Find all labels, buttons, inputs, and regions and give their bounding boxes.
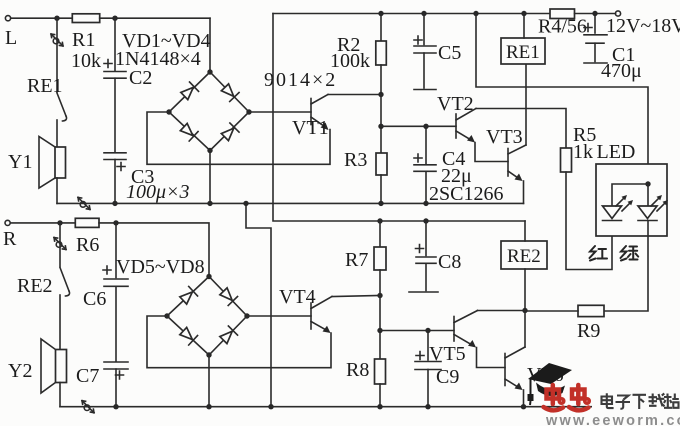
node bbox=[423, 218, 428, 223]
svg-text:RE1: RE1 bbox=[506, 42, 540, 63]
node bridge1 right bbox=[246, 109, 251, 114]
node bbox=[421, 11, 426, 16]
node rail1 dots bbox=[112, 201, 117, 206]
node bbox=[378, 11, 383, 16]
wire VT3 emitter to ground rail bbox=[523, 181, 525, 203]
wire bbox=[379, 296, 381, 360]
resistor R3 bbox=[344, 149, 387, 203]
svg-text:VT1: VT1 bbox=[292, 117, 329, 139]
relay coil RE1 bbox=[501, 14, 545, 65]
svg-text:12V~18V: 12V~18V bbox=[606, 15, 680, 37]
svg-text:1k: 1k bbox=[573, 141, 593, 163]
terminal R bbox=[3, 220, 17, 250]
LED box bbox=[596, 164, 667, 236]
resistor R7 bbox=[345, 221, 386, 296]
diode VD3 bbox=[179, 122, 198, 141]
wire bbox=[380, 95, 382, 154]
diode VD7 bbox=[179, 326, 198, 345]
node bridge1 top bbox=[207, 69, 212, 74]
wire bbox=[100, 17, 210, 19]
svg-text:C2: C2 bbox=[129, 67, 152, 89]
LED red bbox=[603, 195, 634, 221]
wire bridge1 left loop bbox=[147, 112, 330, 164]
wire R9 to node bbox=[525, 310, 578, 312]
LED green bbox=[638, 195, 668, 221]
svg-text:R1: R1 bbox=[72, 29, 95, 51]
resistor R4 bbox=[538, 9, 587, 38]
diode bridge VD5-VD8 frame bbox=[167, 277, 247, 356]
node bbox=[522, 308, 527, 313]
terminal 12V~18V bbox=[606, 11, 680, 37]
terminal L bbox=[5, 16, 17, 49]
wire bbox=[114, 160, 116, 204]
relay RE1 contact blade bbox=[27, 75, 67, 121]
svg-text:C8: C8 bbox=[438, 251, 461, 273]
svg-text:Y1: Y1 bbox=[8, 151, 32, 173]
node bbox=[473, 11, 478, 16]
svg-text:R9: R9 bbox=[577, 320, 600, 342]
capacitor C7 bbox=[76, 362, 128, 387]
capacitor C5 bbox=[414, 14, 461, 90]
wire bbox=[56, 120, 58, 147]
relay RE2 contact blade bbox=[17, 268, 70, 298]
node bbox=[377, 328, 382, 333]
wire bbox=[209, 18, 211, 72]
node bbox=[243, 201, 248, 206]
wire VT6 emitter to ground bbox=[523, 390, 525, 407]
wire VT3 collector to RE1 bbox=[525, 64, 527, 145]
node bridge2 top bbox=[206, 274, 211, 279]
svg-text:R7: R7 bbox=[345, 249, 368, 271]
wire bbox=[575, 13, 616, 15]
svg-text:L: L bbox=[5, 27, 17, 49]
transistor VT2 bbox=[437, 93, 476, 143]
wire ch1 ground rail bbox=[57, 202, 524, 204]
watermark whiteout bbox=[592, 384, 680, 426]
resistor R2 bbox=[330, 14, 386, 95]
speaker Y1 bbox=[8, 137, 66, 189]
svg-text:VT5: VT5 bbox=[429, 343, 466, 365]
transistor VT5 bbox=[454, 311, 478, 348]
node bbox=[112, 16, 117, 21]
wire bridge2 bottom lead bbox=[208, 355, 210, 407]
relay contact mark bbox=[82, 401, 94, 413]
svg-text:10k: 10k bbox=[71, 50, 101, 72]
wire base line VT5 bbox=[380, 330, 454, 332]
svg-text:2SC1266: 2SC1266 bbox=[429, 183, 503, 205]
node bbox=[592, 11, 597, 16]
capacitor C6 bbox=[83, 223, 128, 310]
capacitor C1 bbox=[584, 14, 642, 83]
wire base line VT2 bbox=[381, 125, 456, 127]
svg-text:VT4: VT4 bbox=[279, 286, 316, 308]
watermark worm glyph 2 bbox=[569, 385, 589, 410]
node bridge1 bottom bbox=[207, 148, 212, 153]
svg-text:100μ×3: 100μ×3 bbox=[126, 181, 190, 203]
svg-text:VT2: VT2 bbox=[437, 93, 474, 115]
svg-text:C9: C9 bbox=[436, 366, 459, 388]
svg-text:RE1: RE1 bbox=[27, 75, 63, 97]
node bbox=[425, 328, 430, 333]
relay contact mark bbox=[51, 34, 63, 46]
transistor VT1 bbox=[292, 95, 329, 140]
wire VT2 collector to R5 bbox=[476, 109, 566, 149]
resistor R6 bbox=[75, 218, 99, 256]
wire bridge2 left loop bbox=[147, 316, 331, 368]
capacitor C4 bbox=[414, 126, 503, 205]
svg-text:1N4148×4: 1N4148×4 bbox=[115, 48, 201, 70]
speaker Y2 bbox=[8, 339, 67, 393]
wire VT1 collector bbox=[328, 94, 381, 96]
resistor R5 bbox=[561, 124, 597, 172]
resistor R8 bbox=[346, 359, 386, 407]
transistor VT6 bbox=[505, 347, 564, 390]
diode VD2 bbox=[220, 83, 239, 102]
transistor VT4 bbox=[279, 286, 332, 333]
wire VT4 collector bbox=[332, 296, 380, 297]
wire bbox=[59, 223, 61, 267]
relay contact mark bbox=[54, 238, 66, 250]
svg-text:RE2: RE2 bbox=[507, 246, 541, 267]
watermark worm glyph 1 bbox=[544, 385, 564, 410]
node bbox=[113, 220, 118, 225]
node bbox=[423, 124, 428, 129]
svg-text:9014×2: 9014×2 bbox=[264, 69, 337, 91]
wire LED anode feeds bbox=[612, 184, 648, 206]
watermark graduation cap bbox=[528, 363, 573, 405]
svg-text:C7: C7 bbox=[76, 365, 99, 387]
transistor VT3 bbox=[486, 126, 526, 181]
wire VT2 emitter to VT3 base bbox=[475, 143, 508, 162]
node bridge1 left bbox=[166, 109, 171, 114]
wire bbox=[56, 18, 58, 92]
wire RE2 to VT6 collector bbox=[524, 311, 526, 348]
svg-text:R3: R3 bbox=[344, 149, 367, 171]
wire supply drop left bbox=[273, 14, 525, 222]
svg-text:LED: LED bbox=[597, 141, 636, 163]
diode VD1 bbox=[180, 82, 199, 101]
label green bbox=[621, 246, 639, 261]
node bbox=[378, 124, 383, 129]
svg-text:C5: C5 bbox=[438, 42, 461, 64]
svg-text:VD5~VD8: VD5~VD8 bbox=[116, 256, 205, 278]
wire bridge1 bottom lead bbox=[209, 151, 211, 204]
node bridge2 right bbox=[244, 313, 249, 318]
wire bbox=[59, 295, 61, 350]
node bridge2 bottom bbox=[206, 352, 211, 357]
node bbox=[54, 16, 59, 21]
node LED feed bbox=[645, 181, 650, 186]
svg-text:Y2: Y2 bbox=[8, 360, 32, 382]
wire VT5 collector bbox=[478, 310, 526, 312]
svg-text:R4/56: R4/56 bbox=[538, 16, 587, 38]
svg-text:R6: R6 bbox=[76, 234, 99, 256]
wire bbox=[115, 369, 117, 407]
svg-text:470μ: 470μ bbox=[601, 60, 642, 82]
wire green LED cathode to R9 bbox=[604, 221, 648, 312]
node bridge2 left bbox=[164, 313, 169, 318]
diode VD5 bbox=[179, 286, 198, 305]
node bbox=[521, 11, 526, 16]
wire bridge2 right to VT4 base bbox=[247, 315, 311, 317]
wire bbox=[10, 222, 75, 224]
wire bbox=[11, 17, 73, 19]
resistor R9 bbox=[577, 305, 604, 342]
node bbox=[377, 218, 382, 223]
wire bbox=[114, 78, 116, 152]
node rail2 dots bbox=[113, 404, 118, 409]
wire ground link bbox=[246, 203, 271, 406]
diode VD8 bbox=[219, 326, 238, 345]
wire bbox=[59, 383, 61, 407]
capacitor C8 bbox=[409, 221, 461, 292]
wire bbox=[56, 178, 58, 203]
diode bridge VD1-VD4 frame bbox=[169, 72, 249, 151]
wire +V to LED feed bbox=[476, 14, 648, 185]
capacitor C9 bbox=[415, 331, 466, 407]
relay contact mark bbox=[78, 197, 90, 209]
node bbox=[378, 92, 383, 97]
wire bbox=[115, 286, 117, 361]
wire R5 bottom to red LED cathode bbox=[566, 172, 612, 270]
svg-text:R8: R8 bbox=[346, 359, 369, 381]
svg-text:www.eeworm.com: www.eeworm.com bbox=[545, 413, 680, 426]
wire top rail bbox=[273, 13, 550, 15]
label red bbox=[590, 246, 608, 261]
diode VD6 bbox=[219, 287, 238, 306]
svg-text:C6: C6 bbox=[83, 288, 106, 310]
capacitor C2 bbox=[104, 18, 152, 89]
node bbox=[57, 220, 62, 225]
resistor R1 bbox=[71, 14, 101, 72]
svg-text:VT3: VT3 bbox=[486, 126, 523, 148]
wire ch2 ground rail bbox=[60, 406, 592, 408]
node bbox=[377, 293, 382, 298]
wire VT5 emitter to VT6 base bbox=[477, 348, 506, 368]
watermark site name glyphs bbox=[602, 393, 679, 409]
wire bridge1 right to VT1 base bbox=[249, 111, 311, 113]
capacitor C3 bbox=[104, 153, 190, 203]
svg-text:100k: 100k bbox=[330, 50, 370, 72]
relay coil RE2 bbox=[501, 221, 547, 311]
wire bbox=[99, 223, 209, 277]
diode VD4 bbox=[220, 123, 239, 142]
svg-text:R: R bbox=[3, 228, 17, 250]
svg-text:RE2: RE2 bbox=[17, 275, 53, 297]
